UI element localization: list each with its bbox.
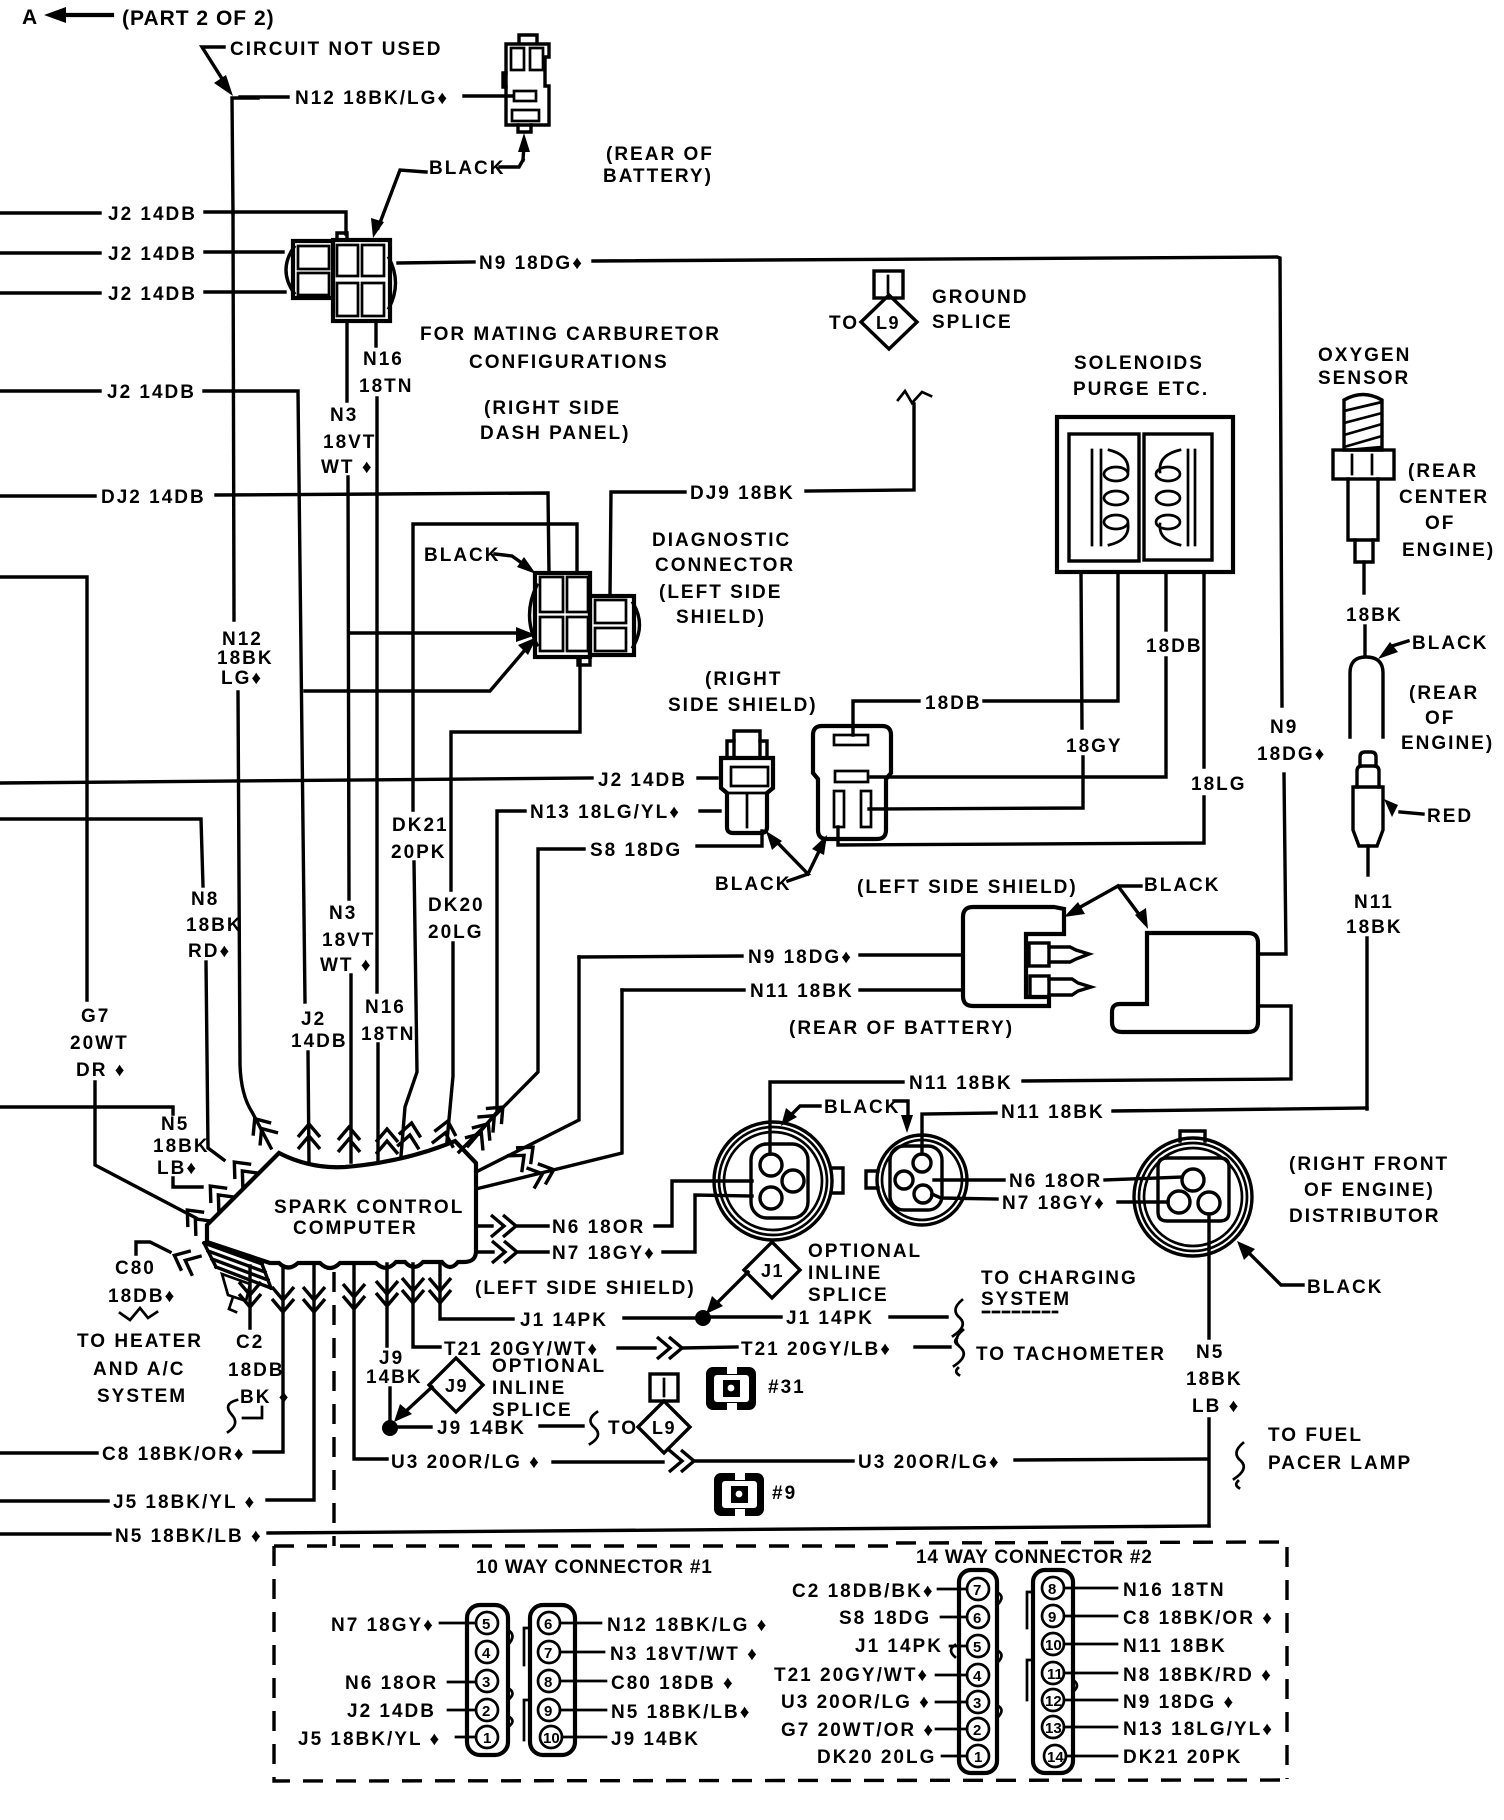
svg-text:N3: N3 bbox=[329, 903, 357, 924]
svg-text:T21 20GY/LB♦: T21 20GY/LB♦ bbox=[741, 1339, 892, 1360]
svg-text:N9 18DG ♦: N9 18DG ♦ bbox=[1123, 1692, 1235, 1713]
svg-text:G7 20WT/OR ♦: G7 20WT/OR ♦ bbox=[781, 1720, 935, 1741]
svg-text:N5: N5 bbox=[161, 1114, 189, 1135]
svg-text:(RIGHT FRONT: (RIGHT FRONT bbox=[1289, 1154, 1449, 1175]
svg-text:N7 18GY♦: N7 18GY♦ bbox=[552, 1243, 656, 1264]
wire J2 14DB #1 bbox=[0, 204, 346, 234]
svg-text:18BK: 18BK bbox=[1346, 917, 1403, 938]
svg-text:PACER LAMP: PACER LAMP bbox=[1268, 1453, 1412, 1474]
svg-text:14BK: 14BK bbox=[366, 1367, 423, 1388]
svg-text:20PK: 20PK bbox=[391, 842, 447, 863]
svg-text:BLACK: BLACK bbox=[824, 1097, 901, 1118]
svg-text:N5: N5 bbox=[1196, 1342, 1224, 1363]
svg-text:(LEFT SIDE SHIELD): (LEFT SIDE SHIELD) bbox=[857, 877, 1078, 898]
svg-text:(LEFT SIDE: (LEFT SIDE bbox=[659, 582, 782, 603]
svg-text:18BK: 18BK bbox=[217, 648, 274, 669]
svg-text:U3 20OR/LG♦: U3 20OR/LG♦ bbox=[858, 1452, 1001, 1473]
svg-text:J2 14DB: J2 14DB bbox=[598, 770, 687, 791]
label (RIGHT SIDE SHIELD) bbox=[668, 669, 818, 716]
svg-text:2: 2 bbox=[482, 1703, 490, 1720]
svg-text:N11 18BK: N11 18BK bbox=[750, 981, 854, 1002]
svg-text:9: 9 bbox=[1048, 1609, 1056, 1626]
svg-text:J1: J1 bbox=[761, 1261, 784, 1281]
svg-text:(RIGHT: (RIGHT bbox=[705, 669, 782, 690]
svg-text:(RIGHT SIDE: (RIGHT SIDE bbox=[484, 398, 621, 419]
svg-text:BLACK: BLACK bbox=[1307, 1277, 1384, 1298]
oxygen sensor label bbox=[1318, 345, 1411, 389]
svg-text:N9 18DG♦: N9 18DG♦ bbox=[748, 947, 853, 968]
svg-text:4: 4 bbox=[482, 1645, 491, 1662]
header arrow A (PART 2 OF 2) bbox=[22, 6, 275, 30]
chevrons wires into computer top bbox=[246, 1112, 278, 1145]
wire 18BK to bullet connector bbox=[1363, 626, 1366, 656]
wire N8 18BK/RD* bbox=[0, 819, 243, 1160]
svg-text:(REAR: (REAR bbox=[1409, 683, 1479, 704]
svg-text:18BK: 18BK bbox=[1186, 1369, 1243, 1390]
svg-text:2: 2 bbox=[973, 1722, 981, 1739]
svg-text:SENSOR: SENSOR bbox=[1318, 368, 1410, 389]
svg-text:TO: TO bbox=[608, 1418, 638, 1439]
svg-text:J2: J2 bbox=[301, 1009, 326, 1030]
wire T21 20GY/WT* to tachometer bbox=[413, 1264, 1166, 1375]
svg-text:PURGE ETC.: PURGE ETC. bbox=[1073, 379, 1209, 400]
label DIAGNOSTIC CONNECTOR (LEFT SIDE SHIELD) bbox=[652, 530, 795, 628]
solenoids box bbox=[1057, 417, 1233, 572]
svg-text:N16: N16 bbox=[365, 997, 406, 1018]
connector distributor bbox=[1134, 1131, 1252, 1256]
svg-text:N9 18DG♦: N9 18DG♦ bbox=[479, 253, 584, 274]
svg-text:10 WAY CONNECTOR #1: 10 WAY CONNECTOR #1 bbox=[476, 1557, 713, 1578]
wire 18DB #1 (large connector top to solenoid) bbox=[853, 573, 1118, 735]
svg-text:18VT: 18VT bbox=[322, 930, 375, 951]
svg-text:18VT: 18VT bbox=[323, 432, 376, 453]
svg-text:N11 18BK: N11 18BK bbox=[909, 1073, 1013, 1094]
svg-text:20LG: 20LG bbox=[428, 922, 484, 943]
svg-text:N13 18LG/YL♦: N13 18LG/YL♦ bbox=[1123, 1719, 1274, 1740]
svg-text:C80: C80 bbox=[115, 1258, 156, 1279]
svg-text:CONFIGURATIONS: CONFIGURATIONS bbox=[469, 352, 669, 373]
svg-text:14: 14 bbox=[1047, 1749, 1064, 1766]
label BLACK (shield connectors, two arrows) bbox=[715, 831, 827, 895]
label BLACK (round connectors 1 and 2) bbox=[781, 1097, 913, 1133]
svg-text:7: 7 bbox=[973, 1582, 981, 1599]
svg-text:SOLENOIDS: SOLENOIDS bbox=[1074, 353, 1204, 374]
label TO CHARGING SYSTEM bbox=[953, 1268, 1138, 1345]
svg-text:BATTERY): BATTERY) bbox=[603, 166, 713, 187]
svg-text:SYSTEM: SYSTEM bbox=[97, 1386, 187, 1407]
svg-text:(REAR: (REAR bbox=[1408, 461, 1478, 482]
wire N11 18BK (oxygen column) bbox=[1346, 892, 1403, 1109]
svg-text:18DB♦: 18DB♦ bbox=[108, 1286, 176, 1307]
svg-text:TO HEATER: TO HEATER bbox=[77, 1331, 203, 1352]
svg-text:S8 18DG: S8 18DG bbox=[590, 840, 682, 861]
svg-text:J9: J9 bbox=[379, 1348, 404, 1369]
svg-text:WT ♦: WT ♦ bbox=[320, 955, 373, 976]
wire J2 14DB #4 bbox=[0, 382, 348, 1163]
svg-text:J2 14DB: J2 14DB bbox=[108, 284, 197, 305]
wire J5 18BK/YL* bbox=[0, 1266, 314, 1513]
dashed connector box bbox=[274, 1542, 1287, 1781]
label CIRCUIT NOT USED bbox=[202, 39, 443, 96]
svg-text:J9 14BK: J9 14BK bbox=[437, 1418, 526, 1439]
ground splice symbol L9 (top) bbox=[829, 271, 917, 349]
wire N11 18BK #3 (connector 2 to oxygen column) bbox=[922, 1102, 1367, 1154]
svg-text:DK20: DK20 bbox=[428, 895, 485, 916]
svg-text:J2 14DB: J2 14DB bbox=[108, 204, 197, 225]
svg-text:18BK: 18BK bbox=[186, 915, 243, 936]
svg-text:CENTER: CENTER bbox=[1399, 487, 1489, 508]
wire N6 18OR (computer output) bbox=[476, 1181, 752, 1238]
wire C80 18DB* bbox=[108, 1242, 176, 1320]
svg-text:#31: #31 bbox=[768, 1377, 806, 1398]
svg-text:18BK: 18BK bbox=[1346, 605, 1403, 626]
svg-text:(LEFT SIDE SHIELD): (LEFT SIDE SHIELD) bbox=[475, 1278, 696, 1299]
svg-text:DR ♦: DR ♦ bbox=[76, 1060, 126, 1081]
svg-text:N7 18GY♦: N7 18GY♦ bbox=[1002, 1193, 1106, 1214]
svg-text:N8 18BK/RD ♦: N8 18BK/RD ♦ bbox=[1123, 1665, 1273, 1686]
splice J1 diamond bbox=[706, 1242, 800, 1314]
wire J2 branch to diagnostic connector bbox=[305, 637, 537, 691]
label RED bbox=[1384, 799, 1473, 827]
svg-text:N12 18BK/LG ♦: N12 18BK/LG ♦ bbox=[607, 1615, 768, 1636]
svg-text:LG♦: LG♦ bbox=[221, 668, 263, 689]
svg-text:A: A bbox=[22, 6, 38, 29]
svg-text:SIDE SHIELD): SIDE SHIELD) bbox=[668, 695, 818, 716]
svg-text:G7: G7 bbox=[81, 1006, 110, 1027]
label (REAR CENTER OF ENGINE) bbox=[1399, 461, 1495, 561]
connector bullet black (rear of engine) bbox=[1350, 657, 1383, 737]
svg-text:SPLICE: SPLICE bbox=[492, 1400, 573, 1421]
svg-text:18DG♦: 18DG♦ bbox=[1257, 744, 1326, 765]
wire N7 18GY* (connector 2 to distributor) bbox=[932, 1193, 1168, 1214]
svg-text:U3 20OR/LG ♦: U3 20OR/LG ♦ bbox=[391, 1452, 541, 1473]
svg-text:C80 18DB ♦: C80 18DB ♦ bbox=[611, 1673, 735, 1694]
connector right-side-shield small (J2/N13/S8) bbox=[721, 731, 773, 833]
wire N5 18BK/LB* (left label to computer) bbox=[0, 1107, 210, 1187]
wire N9 18DG* top run bbox=[398, 253, 1326, 954]
svg-text:C8 18BK/OR ♦: C8 18BK/OR ♦ bbox=[1123, 1608, 1274, 1629]
svg-text:INLINE: INLINE bbox=[808, 1263, 882, 1284]
svg-text:ENGINE): ENGINE) bbox=[1401, 733, 1494, 754]
svg-text:18TN: 18TN bbox=[361, 1024, 415, 1045]
svg-text:10: 10 bbox=[543, 1730, 560, 1747]
svg-text:INLINE: INLINE bbox=[492, 1378, 566, 1399]
svg-text:BLACK: BLACK bbox=[1144, 875, 1221, 896]
svg-text:18BK: 18BK bbox=[153, 1136, 210, 1157]
ground splice symbol L9 (lower) TO bbox=[590, 1374, 690, 1453]
connector 4-way carburetor bbox=[286, 233, 396, 321]
svg-text:BLACK: BLACK bbox=[429, 158, 506, 179]
svg-text:SHIELD): SHIELD) bbox=[676, 607, 766, 628]
symbol connector #9 bbox=[714, 1473, 797, 1516]
svg-text:DASH PANEL): DASH PANEL) bbox=[480, 423, 630, 444]
svg-text:N5 18BK/LB♦: N5 18BK/LB♦ bbox=[611, 1702, 751, 1723]
svg-text:5: 5 bbox=[973, 1639, 981, 1656]
svg-text:DJ9 18BK: DJ9 18BK bbox=[690, 483, 795, 504]
svg-text:18GY: 18GY bbox=[1066, 736, 1123, 757]
svg-text:4: 4 bbox=[973, 1668, 982, 1685]
svg-text:14DB: 14DB bbox=[291, 1031, 348, 1052]
svg-text:18TN: 18TN bbox=[359, 376, 413, 397]
solenoid coil R bbox=[1188, 450, 1195, 545]
svg-text:OF ENGINE): OF ENGINE) bbox=[1304, 1180, 1435, 1201]
label SOLENOIDS PURGE ETC. bbox=[1073, 353, 1209, 400]
svg-text:14 WAY CONNECTOR #2: 14 WAY CONNECTOR #2 bbox=[916, 1547, 1153, 1568]
svg-text:N3 18VT/WT ♦: N3 18VT/WT ♦ bbox=[610, 1644, 759, 1665]
svg-text:N3: N3 bbox=[330, 405, 358, 426]
svg-text:SPARK CONTROL: SPARK CONTROL bbox=[274, 1197, 464, 1218]
wire J9 14BK with splice dot bbox=[366, 1264, 583, 1439]
svg-text:N6 18OR: N6 18OR bbox=[345, 1673, 438, 1694]
label (RIGHT SIDE DASH PANEL) bbox=[480, 398, 630, 444]
label (RIGHT FRONT OF ENGINE) DISTRIBUTOR bbox=[1289, 1154, 1449, 1227]
svg-text:TO FUEL: TO FUEL bbox=[1268, 1425, 1363, 1446]
svg-text:18DB: 18DB bbox=[228, 1360, 285, 1381]
wire DK20 20LG bbox=[428, 657, 580, 1141]
wire N11 18BK #1 (to shield box) bbox=[476, 981, 963, 1189]
wire N9 computer diagonal bbox=[476, 957, 579, 1172]
connector battery (rear of battery) bbox=[503, 35, 549, 132]
svg-text:AND A/C: AND A/C bbox=[93, 1359, 185, 1380]
svg-text:#9: #9 bbox=[772, 1483, 797, 1504]
wire N16 18TN bbox=[359, 321, 415, 1160]
10-way pin leads and labels bbox=[298, 1615, 768, 1750]
svg-text:J2 14DB: J2 14DB bbox=[108, 244, 197, 265]
svg-text:11: 11 bbox=[1047, 1666, 1063, 1683]
svg-text:N6 18OR: N6 18OR bbox=[1009, 1171, 1102, 1192]
svg-text:S8 18DG: S8 18DG bbox=[839, 1608, 931, 1629]
svg-text:N9: N9 bbox=[1270, 717, 1298, 738]
svg-text:J2 14DB: J2 14DB bbox=[107, 382, 196, 403]
splice J9 diamond bbox=[394, 1358, 483, 1422]
wire G7 20WT/OR* bbox=[0, 577, 196, 1218]
wire DJ9 18BK with break squiggle bbox=[610, 391, 931, 596]
svg-text:DIAGNOSTIC: DIAGNOSTIC bbox=[652, 530, 791, 551]
wire J2 14DB #2 bbox=[0, 244, 283, 265]
label OPTIONAL INLINE SPLICE (J9) bbox=[492, 1356, 606, 1421]
svg-text:N11 18BK: N11 18BK bbox=[1001, 1102, 1105, 1123]
svg-text:N13 18LG/YL♦: N13 18LG/YL♦ bbox=[530, 802, 681, 823]
svg-text:J5 18BK/YL ♦: J5 18BK/YL ♦ bbox=[298, 1729, 441, 1750]
svg-text:CIRCUIT NOT USED: CIRCUIT NOT USED bbox=[230, 39, 443, 60]
wire DJ2 14DB bbox=[0, 487, 549, 573]
label (REAR OF BATTERY) bbox=[603, 144, 714, 187]
svg-text:SYSTEM: SYSTEM bbox=[981, 1289, 1071, 1310]
wire N11 18BK #2 (connector 1 to relay box) bbox=[770, 1006, 1291, 1154]
wire N12 18BK/LG vertical bbox=[232, 98, 258, 213]
wire 18DB #2 (large connector middle to solenoid) bbox=[871, 573, 1203, 777]
svg-text:12: 12 bbox=[1045, 1693, 1062, 1710]
svg-text:1: 1 bbox=[483, 1730, 491, 1747]
connector left-side-shield large (18DB/18GY/18LG) bbox=[813, 726, 891, 839]
label FOR MATING CARBURETOR CONFIGURATIONS bbox=[420, 324, 721, 373]
connector 14-way strip B bbox=[1027, 1570, 1077, 1773]
wire N7 18GY* (computer output) bbox=[476, 1195, 752, 1264]
chevrons wires out of computer bottom bbox=[239, 1282, 261, 1307]
svg-text:(PART 2 OF 2): (PART 2 OF 2) bbox=[122, 7, 275, 30]
svg-text:OPTIONAL: OPTIONAL bbox=[492, 1356, 606, 1377]
wire N3 branch to diagnostic connector bbox=[349, 627, 536, 642]
symbol connector #31 bbox=[706, 1367, 806, 1410]
wire N9 18DG* into shield box bbox=[579, 947, 963, 968]
oxygen sensor component bbox=[1333, 395, 1394, 594]
wire 18LG (large connector bottom slot to solenoid) bbox=[838, 573, 1247, 845]
svg-text:20WT: 20WT bbox=[70, 1033, 129, 1054]
svg-text:J9 14BK: J9 14BK bbox=[611, 1729, 700, 1750]
svg-text:5: 5 bbox=[482, 1616, 490, 1633]
svg-text:7: 7 bbox=[544, 1645, 552, 1662]
svg-text:RD♦: RD♦ bbox=[188, 941, 231, 962]
svg-text:L9: L9 bbox=[876, 313, 900, 333]
svg-text:OPTIONAL: OPTIONAL bbox=[808, 1241, 922, 1262]
svg-text:SPLICE: SPLICE bbox=[932, 312, 1013, 333]
svg-text:C2: C2 bbox=[236, 1332, 264, 1353]
svg-text:6: 6 bbox=[544, 1616, 552, 1633]
svg-text:J9: J9 bbox=[445, 1376, 468, 1396]
svg-text:L9: L9 bbox=[652, 1418, 676, 1438]
svg-text:N11 18BK: N11 18BK bbox=[1123, 1636, 1227, 1657]
wire J1 14PK with splice dot bbox=[440, 1264, 947, 1331]
svg-text:GROUND: GROUND bbox=[932, 287, 1028, 308]
svg-text:T21 20GY/WT♦: T21 20GY/WT♦ bbox=[774, 1665, 929, 1686]
svg-text:8: 8 bbox=[544, 1674, 552, 1691]
component spark control computer bbox=[204, 1141, 476, 1312]
svg-text:1: 1 bbox=[974, 1749, 982, 1766]
svg-text:C8 18BK/OR♦: C8 18BK/OR♦ bbox=[102, 1444, 246, 1465]
svg-text:J5 18BK/YL ♦: J5 18BK/YL ♦ bbox=[113, 1492, 256, 1513]
connector 10-way strip B bbox=[524, 1605, 575, 1755]
svg-text:N7 18GY♦: N7 18GY♦ bbox=[331, 1615, 435, 1636]
svg-text:N8: N8 bbox=[191, 889, 219, 910]
svg-text:J2 14DB: J2 14DB bbox=[347, 1701, 436, 1722]
label BLACK (diagnostic connector) bbox=[424, 545, 536, 574]
label BLACK (bullet connector) bbox=[1378, 633, 1489, 659]
svg-text:J1 14PK: J1 14PK bbox=[786, 1308, 874, 1329]
svg-text:BLACK: BLACK bbox=[424, 545, 501, 566]
computer edge connector hatch bbox=[204, 1243, 271, 1288]
connector round 1 (optional inline splice J1) bbox=[714, 1122, 843, 1240]
label BLACK (shield box and relay, V arrows) bbox=[1064, 875, 1221, 929]
wire 18GY (large connector right slot to solenoid) bbox=[869, 573, 1123, 809]
svg-text:N6 18OR: N6 18OR bbox=[552, 1217, 645, 1238]
svg-text:J1 14PK: J1 14PK bbox=[855, 1636, 943, 1657]
label BLACK (carburetor connector leader) bbox=[371, 170, 426, 238]
14-way pin leads and labels bbox=[774, 1580, 1274, 1768]
component left-side-shield switch box bbox=[963, 907, 1091, 1006]
svg-text:DJ2 14DB: DJ2 14DB bbox=[101, 487, 206, 508]
svg-text:3: 3 bbox=[482, 1674, 490, 1691]
svg-text:N11: N11 bbox=[1354, 892, 1394, 913]
label TO HEATER AND A/C SYSTEM bbox=[77, 1331, 203, 1407]
svg-text:CONNECTOR: CONNECTOR bbox=[655, 555, 795, 576]
svg-text:OF: OF bbox=[1425, 513, 1455, 534]
svg-text:TO CHARGING: TO CHARGING bbox=[981, 1268, 1138, 1289]
svg-text:DK21 20PK: DK21 20PK bbox=[1123, 1747, 1242, 1768]
wire N5 18BK/LB* long bottom bbox=[0, 1526, 1209, 1547]
connector 14-way strip A bbox=[951, 1570, 1002, 1773]
wire J2 14DB #3 bbox=[0, 284, 285, 305]
chevrons wires out of computer left edge bbox=[226, 1155, 259, 1188]
svg-text:(REAR OF BATTERY): (REAR OF BATTERY) bbox=[789, 1018, 1014, 1039]
svg-text:N16: N16 bbox=[363, 349, 404, 370]
svg-text:18LG: 18LG bbox=[1191, 774, 1247, 795]
svg-text:(REAR OF: (REAR OF bbox=[606, 144, 714, 165]
solenoid coil L bbox=[1092, 450, 1101, 545]
svg-text:RED: RED bbox=[1427, 806, 1473, 827]
svg-text:6: 6 bbox=[973, 1610, 981, 1627]
label BLACK (distributor) bbox=[1237, 1241, 1384, 1298]
svg-text:N12: N12 bbox=[222, 629, 263, 650]
wire C8 18BK/OR* bbox=[0, 1266, 283, 1465]
svg-text:8: 8 bbox=[1048, 1581, 1056, 1598]
svg-text:N12 18BK/LG♦: N12 18BK/LG♦ bbox=[295, 88, 449, 109]
label (REAR OF ENGINE) bbox=[1401, 683, 1494, 754]
wire U3 20OR/LG* to fuel pacer lamp bbox=[354, 1264, 1412, 1488]
wire J2 14DB to right-side-shield connector bbox=[0, 770, 717, 791]
svg-text:U3 20OR/LG ♦: U3 20OR/LG ♦ bbox=[781, 1692, 931, 1713]
svg-text:C2 18DB/BK♦: C2 18DB/BK♦ bbox=[792, 1581, 935, 1602]
svg-text:J1 14PK: J1 14PK bbox=[520, 1310, 608, 1331]
connector 10-way strip A bbox=[467, 1605, 513, 1755]
svg-text:WT ♦: WT ♦ bbox=[321, 457, 374, 478]
label N12 18BK/LG* top bbox=[240, 88, 512, 109]
label BLACK (battery connector) bbox=[429, 133, 530, 179]
svg-text:LB♦: LB♦ bbox=[157, 1158, 198, 1179]
svg-text:TO: TO bbox=[829, 313, 859, 334]
wire DK21 20PK bbox=[391, 524, 577, 1156]
svg-text:9: 9 bbox=[544, 1703, 552, 1720]
svg-text:N16 18TN: N16 18TN bbox=[1123, 1580, 1226, 1601]
wire N13 18LG/YL* bbox=[468, 802, 720, 1146]
wire N6 18OR (connector 2 to distributor) bbox=[934, 1171, 1182, 1192]
svg-text:13: 13 bbox=[1045, 1720, 1062, 1737]
svg-text:N5 18BK/LB ♦: N5 18BK/LB ♦ bbox=[115, 1526, 263, 1547]
svg-text:18DB: 18DB bbox=[925, 693, 982, 714]
connector red plug bbox=[1353, 752, 1383, 875]
dashed wire to 10-way connector bbox=[332, 1272, 335, 1546]
svg-text:TO TACHOMETER: TO TACHOMETER bbox=[976, 1344, 1166, 1365]
connector diagnostic bbox=[530, 573, 640, 665]
svg-text:18DB: 18DB bbox=[1146, 636, 1203, 657]
svg-text:ENGINE): ENGINE) bbox=[1402, 540, 1495, 561]
component relay box (rear of battery) bbox=[1112, 933, 1258, 1032]
svg-text:COMPUTER: COMPUTER bbox=[293, 1218, 418, 1239]
svg-text:DK20 20LG: DK20 20LG bbox=[817, 1747, 936, 1768]
svg-text:OXYGEN: OXYGEN bbox=[1318, 345, 1411, 366]
label OPTIONAL INLINE SPLICE (J1) bbox=[808, 1241, 922, 1306]
connector round 2 bbox=[866, 1135, 967, 1225]
label GROUND SPLICE bbox=[932, 287, 1028, 333]
svg-text:DISTRIBUTOR: DISTRIBUTOR bbox=[1289, 1206, 1440, 1227]
wire S8 18DG bbox=[459, 831, 762, 1152]
wire N5 18BK/LB (distributor to fuel pacer line) bbox=[1186, 1214, 1243, 1526]
svg-text:DK21: DK21 bbox=[392, 815, 449, 836]
svg-text:3: 3 bbox=[973, 1695, 981, 1712]
svg-text:BLACK: BLACK bbox=[715, 874, 792, 895]
svg-text:LB ♦: LB ♦ bbox=[1192, 1396, 1240, 1417]
svg-text:SPLICE: SPLICE bbox=[808, 1285, 889, 1306]
svg-text:OF: OF bbox=[1425, 708, 1455, 729]
svg-text:BLACK: BLACK bbox=[1412, 633, 1489, 654]
wire C2 18DB/BK* bbox=[228, 1266, 290, 1432]
svg-text:FOR MATING CARBURETOR: FOR MATING CARBURETOR bbox=[420, 324, 721, 345]
wire N3 18VT/WT bbox=[320, 321, 376, 1162]
svg-text:10: 10 bbox=[1045, 1637, 1062, 1654]
